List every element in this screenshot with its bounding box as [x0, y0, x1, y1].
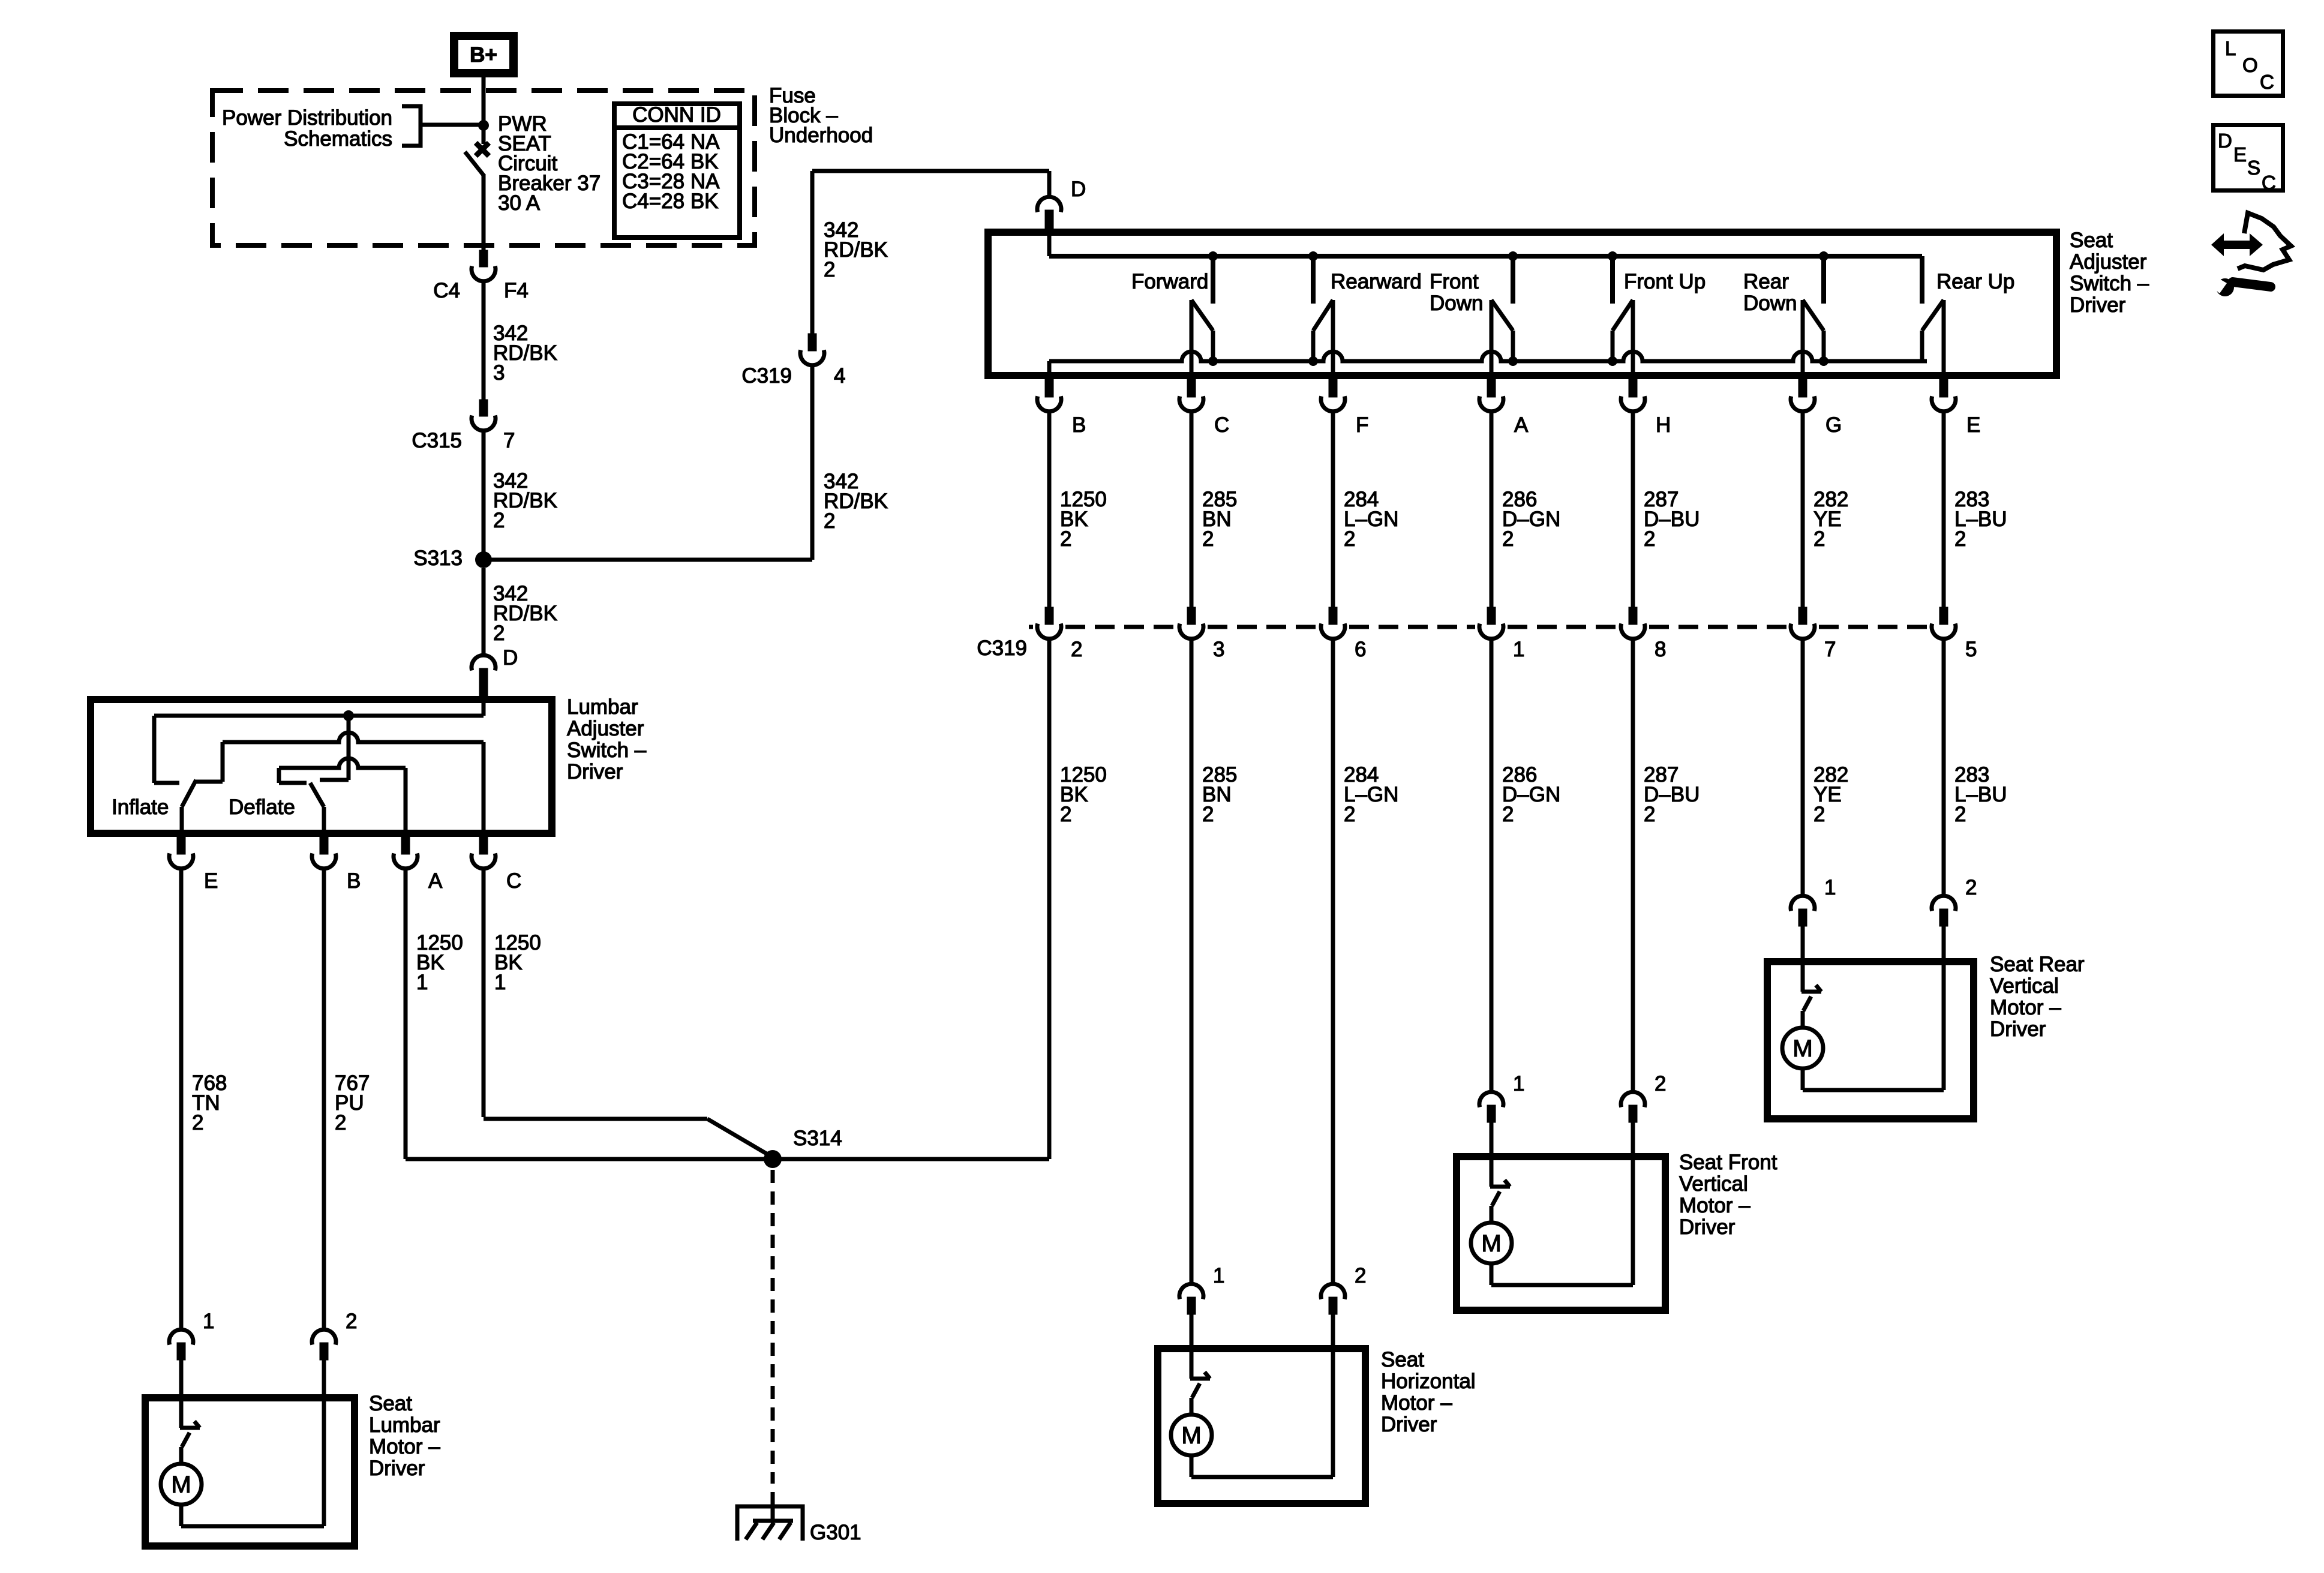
svg-text:O: O [2242, 54, 2258, 76]
svg-text:2: 2 [493, 509, 505, 532]
svg-text:3: 3 [493, 361, 505, 385]
svg-text:Seat: Seat [2070, 229, 2113, 252]
svg-text:Switch –: Switch – [2070, 272, 2149, 295]
svg-text:Motor –: Motor – [1381, 1391, 1452, 1415]
svg-text:2: 2 [1813, 803, 1825, 826]
svg-text:Adjuster: Adjuster [2070, 250, 2147, 274]
svg-text:Adjuster: Adjuster [567, 717, 644, 740]
svg-text:Front Up: Front Up [1624, 270, 1706, 293]
svg-text:M: M [1181, 1422, 1201, 1449]
svg-text:Seat: Seat [1381, 1348, 1424, 1371]
svg-text:C: C [506, 869, 521, 893]
svg-text:M: M [1481, 1230, 1501, 1257]
svg-text:Rear: Rear [1743, 270, 1789, 293]
svg-text:Seat: Seat [369, 1392, 412, 1415]
svg-text:2: 2 [1502, 527, 1514, 551]
svg-text:Horizontal: Horizontal [1381, 1370, 1476, 1393]
svg-text:2: 2 [1644, 527, 1655, 551]
svg-text:5: 5 [1965, 638, 1977, 661]
svg-text:CONN ID: CONN ID [632, 103, 721, 127]
svg-text:2: 2 [1813, 527, 1825, 551]
svg-text:H: H [1656, 413, 1671, 437]
svg-text:Deflate: Deflate [229, 795, 295, 819]
svg-text:2: 2 [1355, 1264, 1366, 1287]
svg-text:B: B [347, 869, 361, 893]
svg-text:2: 2 [1344, 527, 1355, 551]
svg-text:Underhood: Underhood [769, 124, 873, 147]
svg-text:2: 2 [493, 622, 505, 645]
svg-text:1: 1 [1513, 638, 1524, 661]
svg-text:4: 4 [834, 364, 845, 388]
svg-text:Motor –: Motor – [1990, 996, 2061, 1019]
svg-text:1: 1 [494, 971, 506, 994]
svg-text:C: C [1214, 413, 1229, 437]
svg-text:Lumbar: Lumbar [369, 1413, 440, 1437]
svg-text:Down: Down [1743, 292, 1797, 315]
svg-text:2: 2 [824, 258, 835, 281]
svg-text:G301: G301 [810, 1521, 861, 1544]
svg-text:B+: B+ [470, 43, 497, 67]
svg-text:2: 2 [1965, 876, 1977, 899]
svg-text:Front: Front [1430, 270, 1479, 293]
svg-text:Power Distribution: Power Distribution [222, 106, 392, 130]
svg-text:S314: S314 [793, 1127, 842, 1150]
svg-text:C319: C319 [741, 364, 792, 388]
svg-text:2: 2 [1954, 527, 1966, 551]
svg-text:Driver: Driver [2070, 293, 2126, 317]
svg-text:Schematics: Schematics [284, 127, 392, 151]
svg-text:Driver: Driver [567, 760, 623, 784]
svg-text:F4: F4 [504, 279, 529, 302]
svg-text:Inflate: Inflate [112, 795, 169, 819]
svg-text:C4: C4 [433, 279, 460, 302]
svg-text:S313: S313 [413, 547, 463, 570]
svg-text:2: 2 [1071, 638, 1082, 661]
svg-text:Motor –: Motor – [369, 1435, 440, 1458]
svg-text:2: 2 [335, 1111, 346, 1134]
svg-text:Vertical: Vertical [1679, 1172, 1748, 1196]
svg-text:3: 3 [1213, 638, 1224, 661]
svg-text:Driver: Driver [1990, 1017, 2046, 1041]
svg-text:E: E [1966, 413, 1980, 437]
svg-text:Lumbar: Lumbar [567, 695, 638, 719]
svg-text:2: 2 [1344, 803, 1355, 826]
svg-text:M: M [171, 1472, 191, 1498]
svg-text:A: A [1514, 413, 1529, 437]
svg-text:E: E [2233, 143, 2247, 166]
svg-text:6: 6 [1355, 638, 1366, 661]
svg-text:Motor –: Motor – [1679, 1194, 1750, 1217]
svg-text:2: 2 [1202, 527, 1214, 551]
svg-text:C: C [2260, 71, 2274, 93]
svg-text:Seat Rear: Seat Rear [1990, 953, 2085, 976]
svg-text:Down: Down [1430, 292, 1483, 315]
svg-text:E: E [204, 869, 218, 893]
svg-text:B: B [1072, 413, 1086, 437]
svg-text:2: 2 [346, 1310, 357, 1333]
svg-text:7: 7 [503, 429, 515, 452]
svg-text:D: D [2218, 130, 2232, 152]
svg-text:2: 2 [824, 509, 835, 533]
svg-text:F: F [1356, 413, 1368, 437]
svg-text:2: 2 [1954, 803, 1966, 826]
svg-text:8: 8 [1655, 638, 1666, 661]
svg-text:2: 2 [1060, 803, 1071, 826]
svg-text:30 A: 30 A [498, 191, 541, 215]
svg-text:Rearward: Rearward [1331, 270, 1422, 293]
svg-text:Seat Front: Seat Front [1679, 1151, 1777, 1174]
svg-text:1: 1 [1824, 876, 1836, 899]
svg-text:1: 1 [416, 971, 428, 994]
svg-text:2: 2 [1060, 527, 1071, 551]
svg-text:Forward: Forward [1131, 270, 1208, 293]
svg-text:2: 2 [192, 1111, 203, 1134]
svg-text:2: 2 [1644, 803, 1655, 826]
svg-text:Switch –: Switch – [567, 739, 647, 762]
svg-text:Driver: Driver [369, 1457, 425, 1480]
svg-text:S: S [2247, 157, 2260, 179]
svg-text:1: 1 [1513, 1072, 1524, 1095]
svg-text:Vertical: Vertical [1990, 974, 2059, 998]
svg-text:2: 2 [1655, 1072, 1666, 1095]
svg-text:C4=28 BK: C4=28 BK [622, 190, 719, 213]
svg-text:C: C [2262, 172, 2276, 194]
svg-text:C319: C319 [977, 637, 1027, 660]
svg-text:D: D [1071, 178, 1086, 201]
svg-text:Driver: Driver [1679, 1215, 1736, 1239]
svg-text:1: 1 [203, 1310, 214, 1333]
svg-text:G: G [1825, 413, 1842, 437]
svg-text:D: D [503, 646, 518, 670]
svg-text:2: 2 [1202, 803, 1214, 826]
svg-text:M: M [1792, 1035, 1812, 1062]
svg-text:7: 7 [1824, 638, 1836, 661]
svg-text:C315: C315 [412, 429, 462, 452]
svg-text:A: A [428, 869, 443, 893]
svg-text:Rear Up: Rear Up [1936, 270, 2014, 293]
svg-text:L: L [2225, 37, 2236, 59]
svg-text:2: 2 [1502, 803, 1514, 826]
svg-text:Driver: Driver [1381, 1413, 1437, 1436]
svg-text:1: 1 [1213, 1264, 1224, 1287]
